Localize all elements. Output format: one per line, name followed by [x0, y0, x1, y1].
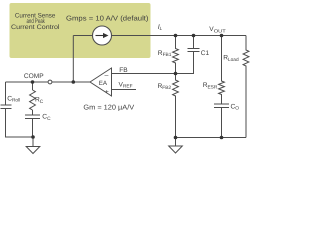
wire: left ground stub [32, 137, 34, 147]
svg-text:Current Control: Current Control [11, 24, 60, 31]
capacitor CRoll [1, 104, 12, 106]
wire: Rc top lead [32, 82, 34, 90]
op-amp EA [90, 68, 112, 96]
wire: Co bottom lead [221, 108, 223, 138]
resistor RFB2 with leads [173, 74, 179, 138]
svg-text:Gmps = 10 A/V (default): Gmps = 10 A/V (default) [66, 15, 149, 23]
capacitor Cc [25, 114, 40, 116]
resistor RLoad with leads [243, 36, 249, 138]
svg-text:–: – [105, 72, 109, 79]
resistor RFB1 with leads [173, 36, 179, 74]
label: Current Sense and Peak Current Control [11, 12, 60, 31]
capacitor C1 branch wires [176, 52, 194, 74]
svg-text:Gm = 120 µA/V: Gm = 120 µA/V [83, 103, 134, 111]
wire: bottom right rail [176, 137, 247, 139]
svg-text:+: + [105, 89, 109, 96]
capacitor Co [214, 103, 229, 105]
ground (right) [169, 146, 183, 153]
svg-text:EA: EA [99, 80, 108, 87]
resistor RESR with leads [219, 36, 225, 105]
wire: top rail from current source to top-right corner [112, 35, 247, 37]
current source Gmps [93, 26, 112, 45]
node: junction dots [31, 34, 224, 140]
resistor Rc [30, 90, 36, 110]
svg-text:FB: FB [119, 67, 128, 74]
capacitor C1 [188, 48, 200, 50]
wire: Cc bottom lead [32, 119, 34, 138]
node: COMP pin (open circle) [48, 80, 52, 84]
wire: COMP node up to current source control [72, 36, 74, 83]
wire: right ground stub [175, 138, 177, 147]
svg-text:COMP: COMP [24, 73, 44, 80]
annotation box: current sense block [10, 3, 151, 58]
wire: CRoll bottom lead [6, 109, 34, 138]
wire: Rc to Cc [32, 110, 34, 115]
wire: VREF input stub [112, 89, 137, 91]
wire: left branch down to CRoll [5, 82, 7, 105]
ground (left) [26, 147, 40, 154]
svg-text:C1: C1 [201, 50, 210, 57]
wire: current source left lead [73, 35, 92, 37]
wire: COMP horizontal rail [6, 81, 91, 83]
wire: FB input to divider [112, 73, 176, 75]
